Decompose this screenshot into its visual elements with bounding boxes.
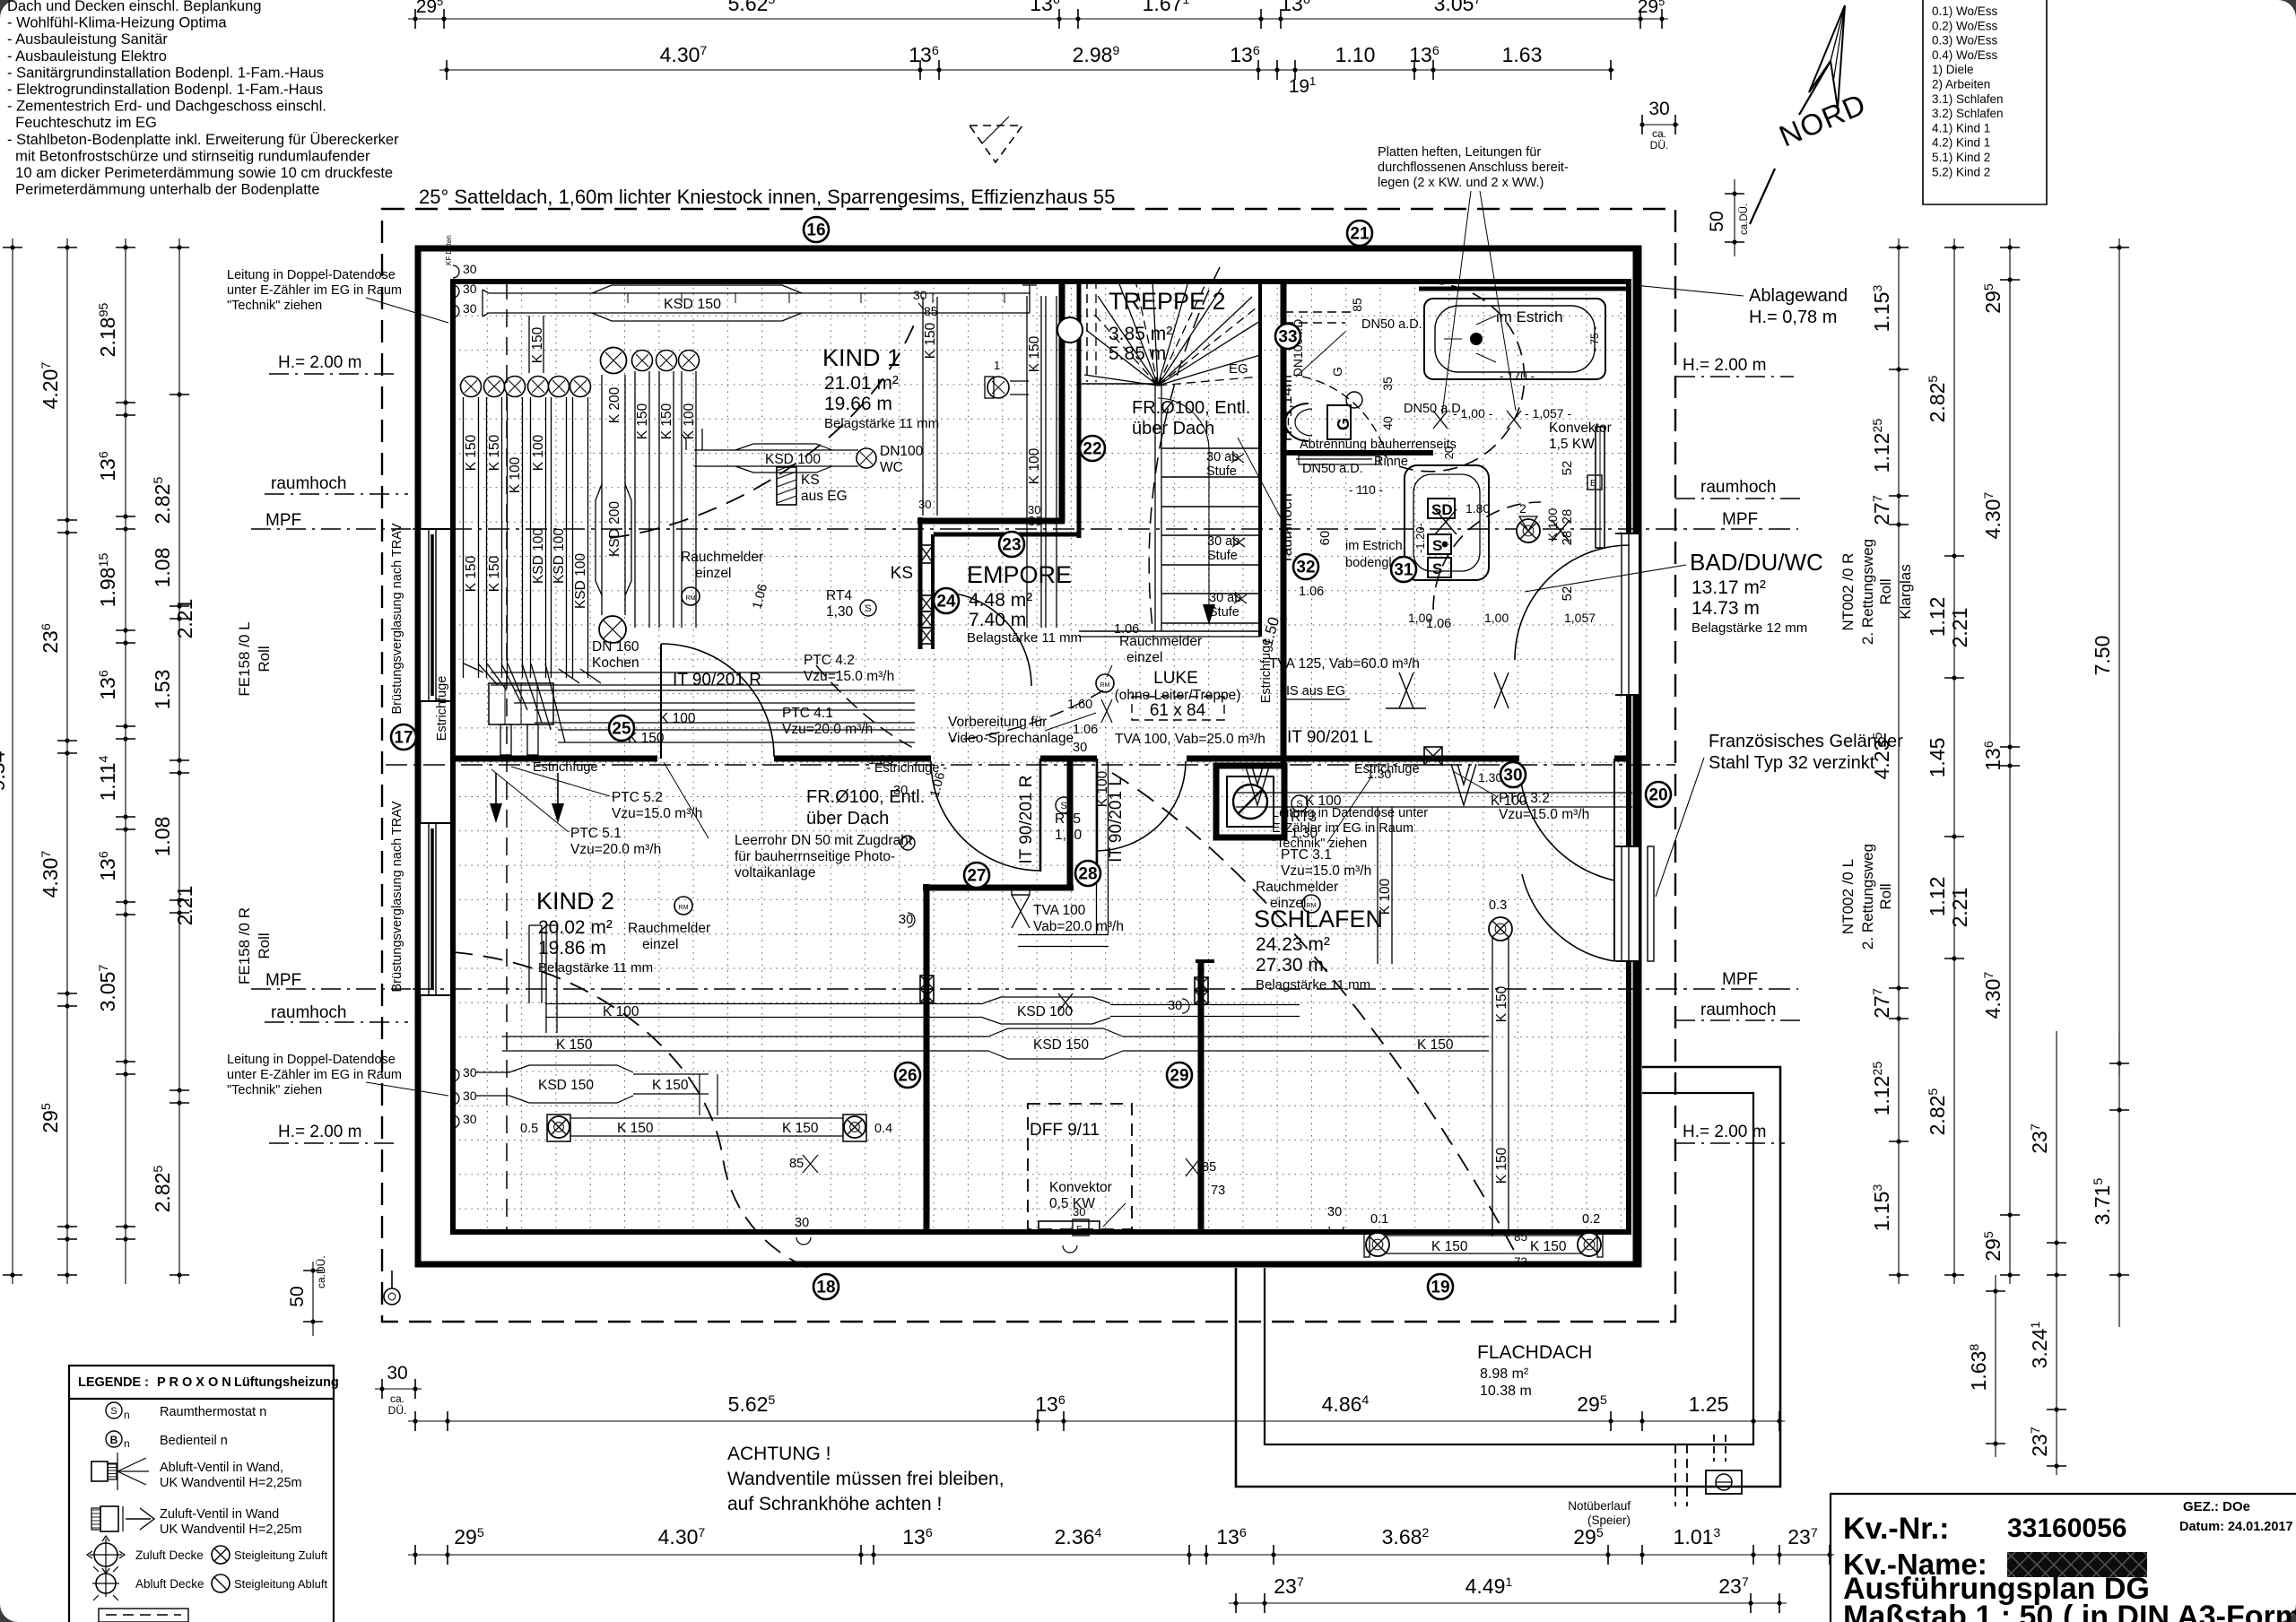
svg-text:- 110 -: - 110 -	[1349, 483, 1383, 497]
Estrichfuge labels	[435, 638, 1420, 776]
svg-text:S: S	[1432, 560, 1442, 577]
labels FE158 windows	[236, 621, 273, 984]
svg-text:Stahl Typ 32 verzinkt: Stahl Typ 32 verzinkt	[1709, 753, 1875, 773]
svg-text:0.5: 0.5	[520, 1122, 538, 1136]
svg-text:1) Diele: 1) Diele	[1932, 63, 1974, 76]
position number 33	[1275, 324, 1300, 349]
svg-text:Lüftungsheizung: Lüftungsheizung	[234, 1375, 339, 1390]
svg-text:Roll: Roll	[1877, 883, 1894, 909]
svg-text:2) Arbeiten: 2) Arbeiten	[1932, 78, 1990, 91]
wall vents 30 top left	[445, 235, 477, 317]
svg-text:H.= 0,78 m: H.= 0,78 m	[1749, 308, 1837, 327]
position number 20	[1646, 782, 1671, 807]
svg-text:0.1: 0.1	[1370, 1212, 1388, 1227]
svg-text:85: 85	[1514, 1230, 1527, 1244]
dimension row bottom-1	[408, 1392, 1785, 1431]
bathtub	[1419, 289, 1631, 383]
labels NT002 windows	[1839, 539, 1914, 950]
door SCHLAFEN	[1519, 759, 1614, 880]
svg-text:Kochen: Kochen	[592, 655, 639, 671]
svg-text:Datum: 24.01.2017: Datum: 24.01.2017	[2179, 1520, 2293, 1534]
svg-text:20: 20	[1648, 786, 1667, 805]
svg-text:K 100: K 100	[531, 434, 546, 471]
svg-text:durchflossenen Anschluss berei: durchflossenen Anschluss bereit-	[1378, 160, 1569, 175]
Notueberlauf Speier	[1568, 1435, 1742, 1527]
svg-text:- Wohlfühl-Klima-Heizung Optim: - Wohlfühl-Klima-Heizung Optima	[7, 15, 227, 31]
svg-text:- Stahlbeton-Bodenplatte inkl.: - Stahlbeton-Bodenplatte inkl. Erweiteru…	[7, 132, 399, 148]
svg-text:5.85 m: 5.85 m	[1109, 343, 1166, 364]
dimension row bottom-3	[1229, 1574, 1787, 1613]
svg-text:Belagstärke 12 mm: Belagstärke 12 mm	[1692, 620, 1807, 636]
svg-text:Leitung in Doppel-Datendose: Leitung in Doppel-Datendose	[227, 1053, 396, 1067]
svg-text:30: 30	[387, 1363, 407, 1383]
svg-text:einzel: einzel	[695, 566, 732, 581]
svg-text:"Technik" ziehen: "Technik" ziehen	[227, 1083, 322, 1097]
svg-text:- Elektrogrundinstallation Bod: - Elektrogrundinstallation Bodenpl. 1-Fa…	[7, 82, 323, 98]
svg-text:MPF: MPF	[1722, 970, 1758, 989]
svg-text:Vab=20.0 m³/h: Vab=20.0 m³/h	[1033, 919, 1124, 934]
shaft KS boxes empore	[920, 545, 933, 644]
svg-text:IS aus EG: IS aus EG	[1286, 684, 1345, 698]
svg-text:"Technik" ziehen: "Technik" ziehen	[227, 299, 322, 313]
svg-text:1.12: 1.12	[1926, 877, 1949, 917]
svg-text:K 100: K 100	[659, 711, 696, 726]
svg-text:22: 22	[1083, 440, 1101, 459]
label BAD/DU/WC	[1525, 549, 1823, 636]
svg-text:1,30: 1,30	[1291, 826, 1318, 841]
svg-text:Konvektor: Konvektor	[1549, 421, 1612, 436]
label TREPPE 2	[1109, 288, 1248, 377]
svg-text:20.02 m²: 20.02 m²	[538, 917, 613, 938]
specification text block	[7, 0, 399, 198]
dimension row bottom-2	[408, 1525, 1834, 1565]
svg-text:Notüberlauf: Notüberlauf	[1568, 1499, 1631, 1513]
svg-text:Vzu=20.0 m³/h: Vzu=20.0 m³/h	[782, 722, 873, 737]
svg-text:1.60: 1.60	[1067, 698, 1092, 712]
rauchmelder empore	[1096, 634, 1202, 692]
svg-text:Vzu=15.0 m³/h: Vzu=15.0 m³/h	[804, 669, 894, 684]
svg-text:LUKE: LUKE	[1153, 669, 1198, 688]
mini dim 30 bottom	[375, 1363, 422, 1417]
wall vent bottom left	[384, 1271, 400, 1305]
svg-text:mit Betonfrostschürze und stir: mit Betonfrostschürze und stirnseitig ru…	[7, 148, 370, 164]
svg-text:K 150: K 150	[464, 434, 479, 471]
label Franzoesisches Gelaender	[1656, 732, 1903, 897]
svg-text:1.63: 1.63	[1502, 43, 1543, 66]
dashed vertical line	[506, 282, 508, 1232]
thermostat bad	[1330, 367, 1362, 408]
svg-text:KS: KS	[891, 564, 913, 583]
svg-text:NT002 /0 L: NT002 /0 L	[1839, 859, 1857, 934]
svg-text:- Ausbauleistung Elektro: - Ausbauleistung Elektro	[7, 48, 167, 65]
svg-text:KS: KS	[801, 473, 820, 488]
svg-text:Feuchteschutz im EG: Feuchteschutz im EG	[7, 115, 157, 131]
ACHTUNG warning	[727, 1444, 1004, 1514]
svg-text:52: 52	[1560, 586, 1575, 602]
svg-text:30: 30	[463, 1089, 477, 1103]
svg-text:- Zementestrich Erd- und Dachg: - Zementestrich Erd- und Dachgeschoss ei…	[7, 99, 326, 115]
svg-text:52: 52	[1560, 461, 1575, 476]
legend	[69, 1366, 339, 1622]
svg-text:19.66 m: 19.66 m	[824, 394, 892, 414]
svg-text:30: 30	[913, 288, 927, 302]
svg-text:K 150: K 150	[1417, 1037, 1454, 1053]
svg-text:30 ab: 30 ab	[1207, 534, 1239, 549]
svg-text:ca.DÜ.: ca.DÜ.	[1739, 204, 1750, 235]
konvektor schlafen-room	[1039, 1180, 1126, 1253]
middle room walls	[923, 760, 1214, 1232]
svg-text:DFF 9/11: DFF 9/11	[1030, 1121, 1100, 1140]
svg-text:16: 16	[806, 221, 825, 240]
svg-text:H.=1,14m: H.=1,14m	[1278, 375, 1295, 441]
thermostat RT3	[1291, 795, 1318, 841]
stairs TREPPE 2	[1079, 280, 1260, 637]
svg-text:25° Satteldach, 1,60m lichter: 25° Satteldach, 1,60m lichter Kniestock …	[419, 186, 1115, 208]
dashed pipes bad	[1284, 312, 1388, 466]
svg-text:K 100: K 100	[1545, 507, 1560, 541]
thermostat RT5	[1055, 797, 1083, 843]
svg-text:1.10: 1.10	[1335, 43, 1376, 66]
svg-text:Belagstärke 11 mm: Belagstärke 11 mm	[1256, 977, 1370, 993]
svg-text:aus EG: aus EG	[801, 489, 848, 504]
svg-text:2.21: 2.21	[1948, 888, 1971, 928]
svg-text:RM: RM	[686, 595, 696, 602]
svg-text:Vzu=20.0 m³/h: Vzu=20.0 m³/h	[570, 842, 661, 857]
svg-text:Rauchmelder: Rauchmelder	[1256, 880, 1338, 895]
left dim chain 0	[0, 239, 22, 1284]
svg-text:RT3: RT3	[1291, 810, 1317, 825]
thermostat RT4	[826, 588, 876, 620]
svg-text:30: 30	[918, 498, 931, 511]
svg-text:K 150: K 150	[1530, 1239, 1567, 1254]
svg-text:FR.Ø100, Entl.: FR.Ø100, Entl.	[1132, 398, 1250, 418]
bath small dims	[1278, 298, 1596, 625]
svg-text:auf Schrankhöhe achten !: auf Schrankhöhe achten !	[727, 1494, 942, 1514]
duct collectors kind1	[464, 664, 915, 755]
svg-text:Brüstungsverglasung nach TRAV: Brüstungsverglasung nach TRAV	[390, 801, 404, 992]
svg-text:2. Rettungsweg: 2. Rettungsweg	[1859, 539, 1876, 645]
mini dim 50 left bottom	[287, 1255, 327, 1336]
assorted small dims	[750, 515, 1451, 1245]
svg-text:P R O X O N: P R O X O N	[157, 1375, 231, 1390]
svg-text:Raumthermostat n: Raumthermostat n	[160, 1405, 266, 1419]
KS label empore	[891, 564, 913, 583]
toilet G	[1285, 403, 1352, 441]
svg-text:TVA 100, Vab=25.0 m³/h: TVA 100, Vab=25.0 m³/h	[1115, 732, 1265, 747]
svg-text:FE158 /0 L: FE158 /0 L	[236, 621, 253, 696]
svg-text:-1.20-: -1.20-	[1413, 523, 1427, 553]
konvektor bad	[1549, 421, 1612, 548]
svg-text:Belagstärke 11 mm: Belagstärke 11 mm	[824, 416, 939, 431]
svg-text:Roll: Roll	[256, 646, 273, 672]
DFF 9/11 roof window	[1028, 1104, 1132, 1229]
right dim chain 3	[1981, 239, 2020, 1284]
svg-text:30: 30	[1503, 767, 1522, 785]
svg-text:S: S	[1432, 537, 1442, 554]
svg-text:G: G	[1335, 418, 1352, 430]
svg-text:TVA 125, Vab=60.0 m³/h: TVA 125, Vab=60.0 m³/h	[1269, 656, 1420, 672]
svg-text:85: 85	[1202, 1160, 1216, 1175]
position number 26	[895, 1063, 920, 1088]
svg-text:73: 73	[1514, 1255, 1527, 1269]
svg-text:30: 30	[1168, 999, 1182, 1013]
mini dim 50 top right	[1707, 179, 1750, 256]
svg-text:K 150: K 150	[1027, 335, 1042, 372]
svg-text:PTC 5.1: PTC 5.1	[570, 826, 622, 841]
position number 31	[1391, 557, 1416, 582]
annotation video-sprechanlage	[948, 713, 1096, 746]
svg-text:unter E-Zähler im EG in Raum: unter E-Zähler im EG in Raum	[227, 283, 402, 298]
left dim chain 1	[39, 239, 77, 1284]
svg-text:1.80: 1.80	[1465, 501, 1490, 516]
svg-text:30 ab: 30 ab	[1209, 591, 1241, 605]
window NT002 right glazing and french balcony rail	[1615, 533, 1654, 961]
svg-text:30: 30	[1073, 741, 1087, 755]
rauchmelder kind1	[681, 550, 763, 605]
svg-text:Konvektor: Konvektor	[1049, 1180, 1112, 1195]
shaft with blocked vent symbol	[1216, 766, 1284, 837]
svg-text:- 75 -: - 75 -	[1588, 326, 1601, 351]
svg-text:KSD 100: KSD 100	[1017, 1004, 1073, 1019]
svg-text:10 am dicker Perimeterdämmung: 10 am dicker Perimeterdämmung sowie 10 c…	[7, 165, 393, 181]
svg-text:9.54: 9.54	[0, 750, 9, 791]
svg-text:33: 33	[1278, 328, 1297, 347]
room list	[1923, 0, 2047, 204]
svg-text:0.3: 0.3	[1489, 898, 1507, 913]
svg-text:DÜ.: DÜ.	[1650, 139, 1669, 152]
inner wall	[453, 282, 1629, 1232]
svg-text:Steigleitung Zuluft: Steigleitung Zuluft	[234, 1548, 327, 1562]
annotation PTC4	[782, 653, 894, 737]
svg-text:30: 30	[899, 913, 913, 927]
svg-text:30: 30	[463, 1112, 477, 1126]
svg-text:28: 28	[1078, 865, 1097, 884]
svg-text:ca.DÜ.: ca.DÜ.	[315, 1255, 327, 1288]
title text satteldach	[419, 186, 1115, 208]
annotation datendose top	[227, 268, 448, 323]
svg-text:Stufe: Stufe	[1206, 464, 1237, 479]
svg-text:27: 27	[967, 867, 986, 886]
svg-text:19.86 m: 19.86 m	[538, 938, 606, 958]
svg-text:K 150: K 150	[635, 403, 650, 439]
position number 22	[1080, 436, 1105, 461]
svg-text:PTC 5.2: PTC 5.2	[612, 790, 663, 805]
svg-text:1,00: 1,00	[1484, 611, 1509, 625]
rauchmelder schlafen	[1256, 767, 1502, 913]
svg-text:K 150: K 150	[659, 403, 674, 439]
svg-text:2. Rettungsweg: 2. Rettungsweg	[1859, 844, 1876, 950]
duct K150 round ends	[520, 1115, 892, 1141]
svg-text:85: 85	[1350, 298, 1364, 312]
svg-text:UK Wandventil H=2,25m: UK Wandventil H=2,25m	[160, 1522, 302, 1537]
svg-text:E: E	[1076, 1225, 1083, 1235]
svg-text:( in DIN A3-Format ): ( in DIN A3-Format )	[2063, 1600, 2296, 1622]
svg-text:K 150: K 150	[487, 555, 502, 592]
svg-text:Estrichfuge: Estrichfuge	[435, 676, 449, 742]
svg-text:27.30 m.: 27.30 m.	[1256, 955, 1329, 976]
svg-text:H.= 2.00 m: H.= 2.00 m	[278, 1123, 361, 1141]
svg-text:Roll: Roll	[256, 932, 273, 958]
svg-text:IT 90/201 R: IT 90/201 R	[1017, 776, 1036, 864]
svg-text:Brüstungsverglasung nach TRAV: Brüstungsverglasung nach TRAV	[390, 523, 404, 714]
svg-text:50: 50	[287, 1286, 308, 1306]
svg-text:K 100: K 100	[682, 403, 697, 439]
svg-text:DN100: DN100	[880, 444, 924, 459]
svg-text:Vzu=15.0 m³/h: Vzu=15.0 m³/h	[1281, 863, 1371, 879]
svg-text:K 150: K 150	[1431, 1239, 1468, 1254]
svg-text:17: 17	[394, 729, 413, 748]
svg-text:K 150: K 150	[1494, 1147, 1509, 1184]
svg-text:NT002 /0 R: NT002 /0 R	[1839, 553, 1857, 631]
svg-text:4.2) Kind 1: 4.2) Kind 1	[1932, 136, 1990, 150]
svg-text:RT4: RT4	[826, 588, 852, 603]
svg-text:WC: WC	[880, 460, 903, 475]
svg-text:E: E	[1590, 479, 1596, 489]
svg-text:DN 160: DN 160	[592, 639, 639, 655]
svg-text:IT 90/201 L: IT 90/201 L	[1287, 728, 1373, 747]
svg-text:ACHTUNG !: ACHTUNG !	[727, 1444, 831, 1464]
svg-text:Dach und Decken einschl. Bepla: Dach und Decken einschl. Beplankung	[7, 0, 261, 14]
svg-text:PTC 4.1: PTC 4.1	[782, 706, 833, 721]
svg-text:RT5: RT5	[1055, 811, 1081, 827]
svg-text:KF Daten: KF Daten	[445, 235, 453, 265]
svg-text:24: 24	[936, 593, 956, 612]
svg-text:30: 30	[463, 262, 477, 276]
svg-text:Abluft-Ventil in Wand,: Abluft-Ventil in Wand,	[160, 1461, 283, 1475]
svg-text:Ablagewand: Ablagewand	[1749, 286, 1848, 306]
svg-text:Rauchmelder: Rauchmelder	[681, 550, 763, 565]
svg-text:1.25: 1.25	[1689, 1392, 1729, 1416]
shower partition	[1283, 438, 1457, 570]
svg-text:26: 26	[898, 1067, 917, 1086]
duct band K150 KSD150	[502, 1028, 1489, 1059]
door balcony SCHLAFEN	[1522, 846, 1614, 961]
svg-text:im Estrich: im Estrich	[1496, 308, 1563, 325]
svg-text:K 150: K 150	[782, 1121, 819, 1136]
svg-text:G: G	[1330, 367, 1344, 377]
label EMPORE	[967, 561, 1082, 646]
svg-text:ca.: ca.	[390, 1392, 404, 1405]
svg-text:0.4: 0.4	[874, 1122, 892, 1136]
svg-text:raumhoch: raumhoch	[1700, 1001, 1777, 1019]
svg-text:Maßstab 1 : 50: Maßstab 1 : 50	[1843, 1600, 2053, 1622]
svg-text:18: 18	[816, 1279, 835, 1297]
svg-text:35: 35	[1380, 377, 1395, 391]
svg-text:TVA 100: TVA 100	[1033, 903, 1086, 918]
position number 17	[391, 724, 416, 750]
svg-text:1.12: 1.12	[1926, 597, 1949, 638]
ducts SCHLAFEN	[1236, 764, 1632, 1269]
svg-text:IT 90/201 L: IT 90/201 L	[1107, 776, 1126, 863]
right gable wall line	[1633, 251, 1638, 1262]
svg-text:n: n	[124, 1437, 130, 1450]
position number 21	[1347, 221, 1372, 246]
svg-text:19: 19	[1431, 1279, 1449, 1297]
svg-text:K 200: K 200	[607, 386, 622, 423]
left dim chain 2	[96, 239, 135, 1284]
svg-text:2.21: 2.21	[173, 599, 196, 639]
svg-text:1.06: 1.06	[1299, 585, 1324, 599]
svg-text:Rauchmelder: Rauchmelder	[628, 921, 710, 936]
svg-text:29: 29	[1170, 1067, 1188, 1086]
svg-text:1.06: 1.06	[1426, 617, 1451, 631]
svg-text:3.1) Schlafen: 3.1) Schlafen	[1932, 92, 2004, 106]
svg-text:1.06: 1.06	[1073, 723, 1098, 737]
duct corridor riser	[1012, 762, 1124, 947]
svg-text:Zuluft-Ventil in Wand: Zuluft-Ventil in Wand	[160, 1507, 279, 1522]
svg-text:MPF: MPF	[265, 511, 301, 530]
svg-text:KSD 150: KSD 150	[664, 297, 721, 312]
svg-text:1.08: 1.08	[151, 817, 174, 857]
svg-text:S: S	[865, 603, 871, 614]
svg-text:- 170 -: - 170 -	[1500, 369, 1535, 383]
svg-text:K 100: K 100	[1378, 878, 1393, 915]
KS shaft kind1	[777, 464, 848, 505]
svg-text:0.3) Wo/Ess: 0.3) Wo/Ess	[1932, 34, 1998, 48]
svg-text:RM: RM	[679, 905, 689, 911]
annotation ablagewand	[1634, 285, 1848, 327]
svg-text:MPF: MPF	[265, 971, 301, 990]
door labels	[673, 671, 1373, 863]
annotation PTC3	[1281, 771, 1589, 879]
svg-text:20: 20	[1442, 447, 1456, 459]
svg-text:Vorbereitung für: Vorbereitung für	[948, 715, 1047, 730]
position number 19	[1428, 1274, 1453, 1299]
svg-text:25: 25	[612, 720, 631, 739]
svg-text:Belagstärke 11 mm: Belagstärke 11 mm	[967, 630, 1082, 646]
shaft boxes middle walls	[920, 747, 1442, 1004]
position number 24	[934, 588, 959, 613]
svg-text:Vzu=15.0 m³/h: Vzu=15.0 m³/h	[612, 806, 702, 821]
svg-text:unter E-Zähler im EG in Raum: unter E-Zähler im EG in Raum	[227, 1068, 402, 1082]
svg-text:50: 50	[1707, 211, 1727, 231]
door IT 90/201 L	[1097, 759, 1186, 872]
duct band KSD150 left	[475, 1065, 717, 1115]
svg-text:KSD 200: KSD 200	[607, 501, 622, 557]
svg-text:K 150: K 150	[530, 326, 545, 363]
north arrow	[1750, 5, 1871, 224]
svg-text:DN50 a.D.: DN50 a.D.	[1361, 317, 1422, 332]
annotation FR100 treppe	[1132, 398, 1291, 538]
labels Bruestungsverglasung	[390, 523, 404, 992]
rauchmelder kind2	[628, 897, 710, 952]
svg-text:UK Wandventil H=2,25m: UK Wandventil H=2,25m	[160, 1476, 302, 1490]
svg-text:KSD 150: KSD 150	[1033, 1037, 1089, 1053]
svg-text:30: 30	[893, 784, 908, 798]
svg-text:K 150: K 150	[1494, 985, 1509, 1022]
right dim chain 2	[1926, 239, 1971, 1284]
svg-text:Abluft Decke: Abluft Decke	[135, 1577, 204, 1591]
svg-text:raumhoch: raumhoch	[1278, 493, 1295, 561]
door BAD	[1515, 545, 1630, 660]
wall vents 30 left kind2	[453, 1065, 477, 1128]
svg-text:2.21: 2.21	[173, 886, 196, 926]
level dash-dot lines across	[386, 529, 1798, 989]
svg-text:BAD/DU/WC: BAD/DU/WC	[1690, 549, 1823, 576]
svg-text:RM: RM	[1100, 682, 1110, 689]
svg-text:PTC 3.2: PTC 3.2	[1499, 791, 1550, 806]
LUKE roof hatch	[1115, 669, 1241, 720]
corridor TVA labels	[1101, 656, 1509, 747]
dashed roof-height arcs	[453, 267, 1541, 1270]
section mark triangle	[970, 117, 1022, 162]
svg-text:30 ab: 30 ab	[1206, 450, 1239, 464]
svg-text:Belagstärke 11 mm: Belagstärke 11 mm	[538, 960, 653, 976]
svg-text:DN50 a.D.: DN50 a.D.	[1302, 462, 1363, 476]
svg-text:85: 85	[789, 1157, 804, 1171]
svg-text:3.2) Schlafen: 3.2) Schlafen	[1932, 107, 2004, 120]
svg-text:"Technik" ziehen: "Technik" ziehen	[1272, 837, 1367, 851]
